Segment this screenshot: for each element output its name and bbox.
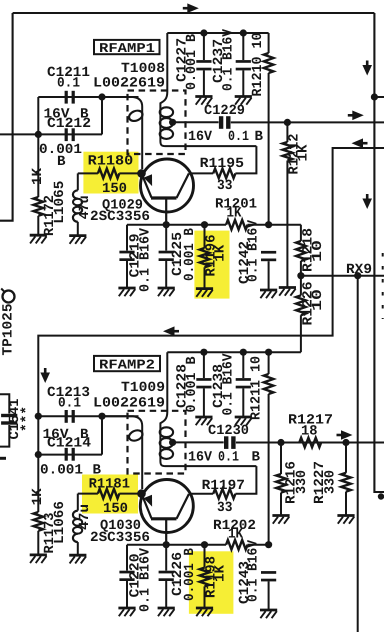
arrow left on y335 <box>174 330 179 333</box>
label box RFAMP1 <box>94 40 160 54</box>
node dot C1237 <box>240 29 247 36</box>
wire R1196 top <box>204 225 206 248</box>
capacitor C1219 <box>119 251 134 254</box>
node dot T1009 tap <box>169 439 176 446</box>
svg-text:0.001 B: 0.001 B <box>184 356 200 413</box>
node dot emitter <box>163 221 170 228</box>
ground R1173 <box>30 554 47 557</box>
svg-text:1K: 1K <box>213 244 229 262</box>
svg-text:RX9: RX9 <box>346 262 372 278</box>
node dot loop2 top-left <box>35 413 42 420</box>
svg-text:L0022619: L0022619 <box>93 395 165 411</box>
wire loop2 bottom <box>38 454 102 456</box>
svg-text:1K: 1K <box>213 564 229 582</box>
winding T1008 primary petal <box>128 109 145 123</box>
svg-text:16V: 16V <box>188 129 213 145</box>
wire C1228 top <box>203 352 205 378</box>
wire T1008 bottom lead <box>160 141 256 146</box>
node dot R1211 top <box>265 349 272 356</box>
transistor Q1030 circle <box>140 480 193 533</box>
dashed net edge line <box>382 253 384 319</box>
wire R1172 bottom <box>37 216 39 235</box>
wire bus y33 <box>167 32 268 34</box>
wire L1065 top <box>77 173 79 190</box>
arrow left stage2 feed <box>363 142 368 145</box>
ground C1243 <box>260 609 277 612</box>
wire C1238 top <box>242 352 244 378</box>
transistor Q1030 collector lead <box>177 494 189 519</box>
svg-text:0.1: 0.1 <box>228 129 249 145</box>
capacitor C1541 <box>1 414 17 417</box>
svg-text:R1210 10: R1210 10 <box>250 33 266 97</box>
wire R1211 bottom long <box>268 394 270 545</box>
wire stage2 feed <box>38 148 384 416</box>
svg-text:L1065: L1065 <box>52 181 68 224</box>
ground C1242 <box>260 289 277 292</box>
node dot R1227 bus <box>342 439 349 446</box>
node dot C1228 <box>200 349 207 356</box>
arrow down x38 <box>44 368 47 373</box>
wire R1198 top <box>204 545 206 568</box>
wire C1227 top <box>203 33 205 60</box>
wire R1227 top <box>345 443 347 473</box>
ground R1216 <box>272 514 289 517</box>
node dot C1243 <box>265 541 272 548</box>
arrow right R1217 out <box>337 434 342 437</box>
transistor Q1029 base bar <box>151 196 177 199</box>
wire emitter bus right <box>248 224 301 226</box>
svg-text:330: 330 <box>294 470 310 494</box>
wire R1196 bottom <box>204 267 206 288</box>
wire R1212 bottom <box>286 161 288 288</box>
node dot loop right <box>98 93 105 100</box>
mark below C1541 <box>0 457 6 460</box>
capacitor C1237 <box>236 60 251 63</box>
highlight R1180 <box>83 152 138 194</box>
testpoint TP1025 circle <box>3 291 15 303</box>
capacitor C1242 <box>261 251 276 254</box>
resistor R1172 <box>34 197 44 216</box>
wire R1172 top <box>37 134 39 197</box>
resistor R1197 <box>213 489 235 499</box>
svg-text:R1197: R1197 <box>202 478 245 494</box>
ground C1225 <box>158 287 175 290</box>
svg-text:16V: 16V <box>188 450 213 466</box>
node dot C1238 <box>240 349 247 356</box>
resistor R1216 <box>276 474 286 493</box>
wire loop2 left <box>37 416 39 454</box>
wire R1216 bottom <box>280 493 282 515</box>
wire R1181 right <box>119 493 141 495</box>
svg-text:1K: 1K <box>30 488 46 506</box>
ground C1237 <box>235 95 252 98</box>
wire R1216 top <box>280 443 282 475</box>
node stub right y97 <box>374 96 384 98</box>
wire bus y442 right <box>236 442 384 444</box>
wire R1173 top <box>37 455 39 512</box>
svg-text:TP1025: TP1025 <box>1 304 17 356</box>
svg-text:T1009: T1009 <box>121 380 165 396</box>
capacitor C1212 <box>65 128 68 141</box>
capacitor C1214 <box>65 448 68 461</box>
transistor Q1030 base arrow <box>144 495 152 507</box>
svg-text:R1195: R1195 <box>200 156 244 172</box>
wire bus y352 <box>167 351 301 353</box>
wire loop top y97 <box>38 96 138 98</box>
svg-text:RFAMP2: RFAMP2 <box>99 358 155 373</box>
svg-text:2SC3356: 2SC3356 <box>90 530 150 546</box>
wire C1219 top <box>126 225 128 251</box>
wire R1210 bottom long <box>268 73 270 225</box>
wire R1227 bottom <box>345 492 347 515</box>
wire L1066 bottom <box>77 542 79 555</box>
wire C1220 top <box>126 545 128 571</box>
ground R1227 <box>337 514 354 517</box>
transistor Q1029 base lead <box>142 173 152 197</box>
ground C1227 <box>195 95 212 98</box>
wire bus y442 left <box>173 441 224 443</box>
capacitor C1226 <box>159 571 174 574</box>
wire R1180 right <box>119 172 141 174</box>
wire R1198 bottom <box>204 586 206 607</box>
ground C1219 <box>118 287 135 290</box>
arrow down trunk 2 <box>366 194 369 199</box>
wire R1218 jog <box>300 225 302 241</box>
capacitor C1228 <box>196 378 211 381</box>
resistor R1173 <box>34 512 44 531</box>
wire C1228 bottom <box>203 388 205 416</box>
svg-text:C1230: C1230 <box>208 423 249 439</box>
node dot RX9 branch <box>354 272 361 279</box>
ground R1196 <box>196 287 213 290</box>
capacitor C1243 <box>261 571 276 574</box>
inductor L1066 <box>73 511 78 519</box>
transistor Q1029 emitter lead <box>165 198 167 225</box>
svg-text:0.001 B: 0.001 B <box>182 547 198 601</box>
wire bus y122 left <box>173 121 219 123</box>
transformer T1008 box <box>128 91 186 155</box>
svg-text:33: 33 <box>217 500 233 516</box>
wire C1541 bottom <box>0 425 9 447</box>
capacitor C1213 <box>65 410 68 423</box>
svg-text:150: 150 <box>103 501 128 517</box>
node dot R1212 <box>284 119 291 126</box>
svg-text:L0022619: L0022619 <box>93 75 165 91</box>
wire L1065 bottom <box>77 222 79 236</box>
svg-text:1K: 1K <box>30 167 46 185</box>
wire top border <box>13 12 375 14</box>
capacitor C1230 <box>224 436 228 449</box>
highlight R1198 <box>189 551 234 614</box>
node dot Q1029 base <box>137 169 146 178</box>
wire R1197 left <box>190 493 213 495</box>
svg-text:C1212: C1212 <box>47 116 91 132</box>
wire R1210 top <box>268 33 270 53</box>
svg-text:0.1 B16V: 0.1 B16V <box>137 227 153 292</box>
wire T1009 secondary feed <box>160 352 167 461</box>
svg-text:0.1 B16V: 0.1 B16V <box>221 28 237 91</box>
resistor R1227 <box>341 473 351 492</box>
resistor R1180 <box>98 169 119 179</box>
wire C1242 bottom <box>268 261 270 289</box>
wire T1008 primary entry <box>102 97 142 169</box>
wire right vertical trunk <box>374 13 384 492</box>
wire emitter bus2 left <box>127 544 226 546</box>
svg-text:B: B <box>252 449 261 465</box>
node dot loop left <box>35 131 42 138</box>
wire C1541 top <box>0 394 9 413</box>
svg-text:1K: 1K <box>296 144 312 162</box>
winding T1009 secondary petals <box>160 427 173 437</box>
svg-text:0.1: 0.1 <box>218 450 239 466</box>
wire R1195 right <box>235 146 256 173</box>
winding T1008 secondary petals <box>160 107 173 117</box>
wire RX9 down trunk <box>357 276 359 632</box>
svg-text:1K: 1K <box>227 206 243 222</box>
svg-text:0.1 B16V: 0.1 B16V <box>245 219 261 282</box>
svg-text:18: 18 <box>301 424 318 440</box>
svg-text:R1180: R1180 <box>88 154 134 170</box>
wire C1220 bottom <box>126 581 128 608</box>
transistor Q1029 circle <box>141 159 194 212</box>
transistor Q1029 base arrow <box>144 174 152 186</box>
capacitor C1227 <box>196 60 211 63</box>
svg-text:1K: 1K <box>228 527 244 543</box>
transistor Q1030 base bar <box>151 517 177 520</box>
ground L1066 <box>69 554 86 557</box>
wire R1195 left <box>190 172 213 174</box>
wire R1197 right <box>235 466 256 494</box>
wire R1212 top <box>286 122 288 142</box>
wire R1173 bottom <box>37 531 39 555</box>
svg-text:R1181: R1181 <box>89 477 130 493</box>
node dot R1196 <box>201 221 208 228</box>
node dot R1218 RX9 <box>297 272 304 279</box>
svg-text:0.1 B16V: 0.1 B16V <box>137 547 153 612</box>
capacitor C1211 <box>65 91 68 104</box>
wire R1218 bottom <box>300 261 302 276</box>
svg-text:L1066: L1066 <box>52 501 68 544</box>
wire loop2 top y416 <box>38 415 138 417</box>
label box RFAMP2 <box>94 356 160 371</box>
wire R1211 top <box>268 352 270 374</box>
resistor R1210 <box>264 53 274 73</box>
wire bus RX9 <box>301 275 384 277</box>
svg-text:47u: 47u <box>77 504 93 530</box>
wire emitter bus2 right <box>248 544 269 546</box>
svg-text:10: 10 <box>310 289 326 311</box>
node dot right y97 <box>371 93 378 100</box>
winding T1009 primary petal <box>128 428 145 442</box>
inductor L1065 <box>73 190 78 198</box>
testpoint TP1025 stub <box>1 289 4 292</box>
svg-text:0.001: 0.001 <box>40 462 83 478</box>
wire R1180 left <box>78 172 98 174</box>
wire C1237 bottom <box>242 70 244 96</box>
resistor R1218 <box>296 241 306 261</box>
wire C1227 bottom <box>203 70 205 96</box>
svg-text:0.1 B16V: 0.1 B16V <box>245 539 261 602</box>
transistor Q1029 collector lead <box>177 173 189 198</box>
svg-text:2SC3356: 2SC3356 <box>90 209 150 225</box>
wire C1237 top <box>242 33 244 60</box>
node dot loop2 bottom-left <box>35 451 42 458</box>
wire R1226 bottom jog <box>300 315 302 352</box>
ground C1238 <box>235 416 252 419</box>
wire left border <box>0 13 13 221</box>
transformer T1009 box <box>128 411 186 474</box>
ground R1212 <box>279 286 296 289</box>
wire C1226 top <box>165 545 167 571</box>
wire C1225 top <box>165 225 167 251</box>
wire C1226 bottom <box>165 581 167 608</box>
node dot R1198 <box>201 541 208 548</box>
wire L1066 top <box>77 494 79 511</box>
node dot loop2 right <box>98 413 105 420</box>
resistor R1217 <box>299 438 321 448</box>
resistor R1196 <box>200 248 210 267</box>
ground C1220 <box>118 607 135 610</box>
wire C1238 bottom <box>242 388 244 416</box>
wire bus y122 right <box>231 121 384 123</box>
arrow down trunk 1 <box>366 61 369 66</box>
wire loop right x102 <box>101 97 103 134</box>
wire T1009 primary entry <box>102 416 142 489</box>
svg-text:0.001 B: 0.001 B <box>182 227 198 281</box>
capacitor C1238 <box>236 378 251 381</box>
node dot Q1030 base <box>137 489 146 498</box>
node dot exit y496 <box>378 493 384 499</box>
svg-text:0.001 B: 0.001 B <box>184 33 200 90</box>
highlight R1181 <box>82 475 138 514</box>
highlight R1196 <box>194 231 229 299</box>
svg-text:0.1: 0.1 <box>58 396 81 412</box>
svg-text:33: 33 <box>217 178 233 194</box>
ground R1198 <box>196 607 213 610</box>
resistor R1198 <box>200 568 210 587</box>
resistor R1201 <box>226 220 247 230</box>
resistor R1181 <box>98 489 119 499</box>
svg-text:0.1 B16V: 0.1 B16V <box>221 353 237 416</box>
wire C1243 bottom <box>268 581 270 609</box>
wire emitter bus left <box>127 224 226 226</box>
svg-text:***: *** <box>20 406 36 432</box>
svg-text:C1214: C1214 <box>47 436 91 452</box>
wire T1008 secondary feed <box>160 33 167 141</box>
resistor R1211 <box>264 374 274 394</box>
svg-text:RFAMP1: RFAMP1 <box>99 42 155 57</box>
svg-text:B: B <box>57 154 66 170</box>
wire T1009 bottom lead <box>160 461 256 466</box>
ground C1226 <box>158 607 175 610</box>
resistor R1212 <box>283 142 293 160</box>
capacitor C1225 <box>159 251 174 254</box>
ground L1065 <box>69 234 86 237</box>
arrow right on top border <box>183 7 188 10</box>
wire loop2 right x102 <box>101 416 103 454</box>
wire R1181 left <box>78 493 98 495</box>
svg-text:0.1: 0.1 <box>57 75 80 91</box>
capacitor C1220 <box>119 571 134 574</box>
ground R1172 <box>30 234 47 237</box>
node dot R1216 bus <box>277 439 284 446</box>
wire C1225 bottom <box>165 261 167 288</box>
wire loop left x38 <box>37 97 39 134</box>
node dot emitter2 <box>163 541 170 548</box>
svg-text:C1229: C1229 <box>204 103 245 119</box>
svg-text:B: B <box>255 129 264 145</box>
capacitor C1229 <box>219 116 223 129</box>
resistor R1226 <box>296 295 306 315</box>
node dot C1227 <box>200 29 207 36</box>
wire C1219 bottom <box>126 261 128 288</box>
transistor Q1030 emitter lead <box>165 519 167 545</box>
node dot T1008 tap <box>169 119 176 126</box>
arrow right bus y122 <box>348 114 353 117</box>
resistor R1202 <box>226 540 247 550</box>
svg-text:R1211 10: R1211 10 <box>248 356 264 420</box>
wire R1226 top <box>300 276 302 296</box>
ground C1228 <box>195 416 212 419</box>
svg-text:150: 150 <box>102 181 127 197</box>
node dot C1242 <box>265 221 272 228</box>
svg-text:10: 10 <box>310 240 326 262</box>
resistor R1195 <box>213 169 235 179</box>
transistor Q1030 base lead <box>142 494 152 519</box>
svg-text:330: 330 <box>323 470 339 494</box>
wire input left y134 <box>0 133 102 135</box>
